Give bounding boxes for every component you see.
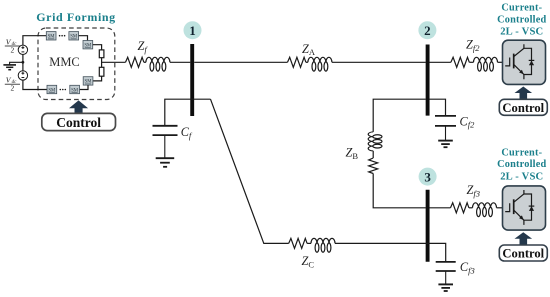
bus 3 bar [426, 190, 430, 262]
svg-text:Controlled: Controlled [497, 159, 546, 170]
control box MMC [42, 113, 116, 130]
source Vdc/2 bottom [18, 71, 27, 80]
control box VSC1 [499, 99, 547, 115]
inductor ZA [308, 57, 332, 71]
wire SM3 to arm inductor [93, 45, 102, 50]
label Vdc/2 top [5, 37, 20, 54]
capacitor Cf [153, 126, 178, 158]
svg-text:2: 2 [424, 23, 431, 38]
wire Zf2 to VSC1 [498, 61, 504, 63]
inductor Zf3 [473, 203, 497, 217]
MMC dashed box [38, 28, 115, 100]
svg-text:Controlled: Controlled [497, 14, 546, 25]
node 2 circle [418, 21, 436, 39]
wire arm to SM6 [93, 76, 102, 81]
submodule SM3 [83, 41, 93, 49]
submodule SM1 [46, 32, 56, 40]
inductor Zf2 [474, 57, 498, 71]
arm impedance lower [99, 67, 104, 76]
VSC1 title [497, 3, 546, 38]
inductor ZB (vertical) [368, 132, 382, 151]
ground Cf [156, 158, 175, 167]
submodule SM2 [69, 32, 79, 40]
node junction dot [22, 61, 25, 64]
svg-text:Grid Forming: Grid Forming [36, 10, 116, 24]
arrow into MMC [69, 100, 88, 113]
IGBT U2 [505, 190, 531, 225]
wire bus1 to ZA [194, 61, 287, 63]
IGBT U1 [505, 44, 531, 79]
dots bottom chain [60, 89, 67, 91]
wire between sources [22, 55, 24, 71]
control box VSC2 [499, 245, 547, 261]
converter VSC2 [499, 186, 547, 261]
converter VSC1 [503, 40, 546, 84]
wire bus2 left tap to ZB [373, 99, 426, 132]
wire bottom rail [23, 80, 47, 89]
ground Cf2 [438, 141, 453, 148]
wire ZC to bus3 and Cf3 [335, 243, 446, 261]
wire [306, 61, 308, 63]
wire [469, 61, 473, 63]
capacitor Cf3 [436, 262, 456, 284]
dots top chain [59, 35, 66, 37]
wire Zf3 to VSC2 [497, 207, 504, 209]
label Vdc/2 bottom [5, 76, 20, 93]
submodule SM5 [70, 85, 80, 93]
arrow into VSC1 [515, 87, 533, 100]
wire bus2 right tap to Cf2 [430, 99, 446, 115]
source Vdc/2 top [18, 45, 27, 54]
inductor Zf [146, 57, 170, 71]
diode D1 [529, 59, 535, 61]
ground Cf3 [438, 284, 453, 291]
wire top rail [23, 36, 46, 45]
resistor Zf [126, 57, 144, 67]
inductor ZC [311, 238, 335, 252]
wire [372, 151, 374, 158]
resistor ZA [288, 57, 306, 67]
wire ZB to bus 3 [373, 174, 426, 208]
submodule SM6 [83, 77, 93, 85]
svg-text:Control: Control [502, 101, 544, 115]
svg-text:2L - VSC: 2L - VSC [500, 27, 543, 38]
svg-text:3: 3 [424, 169, 431, 184]
wire Zf to bus 1 [170, 61, 190, 63]
resistor ZB (vertical) [369, 158, 378, 174]
wire SM6 to rail [80, 85, 88, 89]
diode D2 [529, 205, 535, 207]
resistor ZC [289, 238, 307, 248]
wire diagonal bus1 to ZC [211, 99, 289, 243]
wire [307, 242, 311, 244]
resistor Zf3 [451, 203, 469, 213]
capacitor Cf2 [435, 116, 456, 140]
svg-text:Current-: Current- [501, 148, 542, 159]
svg-text:2: 2 [11, 84, 15, 93]
node 3 circle [419, 168, 437, 186]
VSC2 title [497, 148, 546, 183]
svg-text:Control: Control [502, 247, 544, 261]
wire [144, 61, 146, 63]
wire [469, 207, 473, 209]
svg-text:Current-: Current- [501, 3, 542, 14]
svg-text:MMC: MMC [49, 55, 80, 69]
resistor Zf2 [451, 57, 469, 67]
wire bus2 to Zf2 [430, 61, 451, 63]
bus 2 bar [426, 45, 430, 116]
submodule SM4 [47, 85, 57, 93]
ground (sources) [3, 62, 23, 69]
svg-text:1: 1 [189, 23, 196, 38]
wire ZA to bus 2 [332, 61, 426, 63]
svg-text:Control: Control [56, 115, 101, 130]
wire bus3 to Zf3 [430, 207, 451, 209]
bus 1 bar [190, 44, 194, 116]
arm impedance upper [99, 50, 104, 58]
arrow into VSC2 [515, 232, 533, 245]
wire arm to output [101, 58, 103, 68]
wire SM2 to SM3 [79, 36, 88, 41]
wire MMC output to Zf [102, 61, 126, 63]
wire bus1 lower tap [165, 99, 211, 126]
svg-text:2: 2 [11, 45, 15, 54]
node 1 circle [184, 21, 202, 39]
svg-text:2L - VSC: 2L - VSC [500, 172, 543, 183]
